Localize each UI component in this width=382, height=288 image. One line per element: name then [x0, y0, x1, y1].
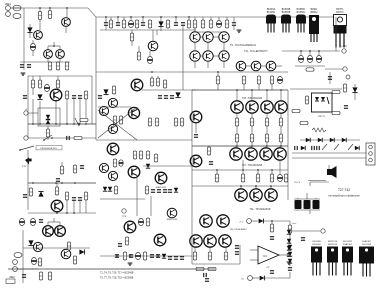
wire y158 row — [292, 157, 366, 159]
main top rail — [88, 8, 336, 17]
wire cross b — [98, 110, 137, 140]
capacitor C61 — [344, 105, 348, 109]
capacitor C51 — [156, 254, 160, 258]
wire y107 mid — [98, 106, 131, 108]
wire y153 row — [292, 152, 366, 154]
jack WE2 second — [9, 267, 17, 279]
input jack WE2 — [13, 253, 22, 265]
diode D8 — [38, 191, 43, 196]
resistor R76 — [114, 186, 117, 194]
wire spk — [310, 165, 329, 186]
resistor R33 — [148, 118, 151, 126]
svg-text:T27...T30-2SC5200: T27...T30-2SC5200 — [242, 165, 263, 167]
resistor R52 — [256, 170, 259, 182]
resistor R4 — [56, 62, 59, 70]
resistor R55 — [193, 247, 196, 260]
svg-text:+Vz: +Vz — [239, 222, 243, 224]
package BC546 TO-92 — [281, 9, 291, 33]
capacitor C50 — [150, 254, 154, 258]
resistor R7 — [122, 17, 125, 28]
wire y199 row — [100, 198, 145, 200]
capacitor C69 — [270, 270, 274, 274]
resistor R20 — [38, 76, 41, 88]
resistor R27 — [112, 86, 115, 94]
wire y90 mid — [142, 89, 196, 91]
resistor R70 — [48, 272, 51, 280]
transistor T7 — [203, 32, 213, 42]
svg-text:MJE15030: MJE15030 — [167, 219, 178, 221]
label MJE15031 — [156, 187, 167, 189]
resistor R21 — [56, 76, 59, 88]
optocoupler U1 — [312, 93, 333, 118]
label +85V — [292, 223, 298, 225]
resistor R38 — [242, 76, 245, 90]
resistor R74 — [143, 252, 146, 260]
diode D17 — [306, 138, 310, 142]
resistor R87 — [300, 121, 308, 124]
capacitor C6 — [104, 17, 108, 30]
wire R1 to T1 — [39, 20, 41, 30]
diode D27 — [288, 259, 292, 263]
transistor T21 — [190, 111, 202, 123]
svg-text:+75V: +75V — [341, 45, 347, 48]
transistor T33 — [265, 189, 277, 201]
resistor R58 — [196, 267, 204, 270]
wire y140 diodes — [300, 139, 360, 141]
electrolytic C65 — [295, 197, 302, 209]
wire gnd C14 — [237, 30, 242, 32]
capacitor C21 — [78, 95, 82, 99]
electrolytic C43 — [31, 257, 36, 264]
capacitor C53 — [174, 256, 178, 260]
resistor R60 — [60, 162, 63, 174]
wire row2 links — [195, 56, 224, 68]
resistor R28 — [113, 116, 116, 124]
wire y89 row — [290, 88, 342, 90]
resistor R53 — [270, 170, 273, 182]
wire x28 down — [27, 150, 29, 210]
svg-text:BDT71: BDT71 — [336, 9, 344, 11]
package BD249 — [311, 247, 322, 276]
diode D5 — [46, 120, 50, 124]
capacitor C68 — [270, 236, 274, 240]
resistor R57 — [224, 247, 227, 260]
input jack WE1 — [5, 2, 11, 16]
wire x183 down — [182, 26, 184, 60]
wire y181 seg — [308, 180, 326, 182]
transistor T43 — [61, 249, 71, 259]
electrolytic C67 — [313, 197, 320, 209]
label opamp — [266, 267, 270, 269]
capacitor C11 — [181, 22, 185, 26]
switch S1 — [43, 135, 53, 141]
diode D14 — [146, 164, 150, 168]
package BDT71 TO-220 — [334, 9, 347, 48]
resistor R42 — [250, 113, 253, 126]
electrolytic C66 — [304, 197, 311, 209]
capacitor C29 — [209, 161, 213, 165]
fuse F1 — [322, 144, 327, 150]
capacitor C54 — [180, 256, 184, 260]
resistor R56 — [208, 247, 211, 260]
terminal aux — [325, 67, 347, 71]
svg-text:2SA1302: 2SA1302 — [343, 243, 353, 246]
diode D12 — [103, 187, 107, 191]
wire col x24 — [23, 12, 25, 70]
resistor R90 — [288, 221, 291, 233]
diode D16 — [352, 87, 357, 92]
wire y270 row2 — [17, 268, 38, 270]
transistor T8 — [219, 32, 229, 42]
svg-text:IC1: IC1 — [263, 255, 267, 258]
wire row y62 — [20, 61, 70, 63]
wire rail y183 — [28, 182, 96, 184]
svg-text:BC560C: BC560C — [297, 12, 306, 14]
resistor R10 — [166, 20, 169, 28]
diode D23 — [259, 219, 264, 224]
label T34-T35 — [230, 229, 248, 231]
capacitor C71 — [301, 237, 305, 241]
electrolytic C12 — [147, 51, 152, 64]
diode D21 — [301, 146, 305, 150]
transistor T32 — [250, 189, 262, 201]
resistor R81 — [145, 186, 148, 194]
wire tp2 row — [28, 137, 96, 139]
wire y264 — [192, 245, 240, 264]
transistor T29 — [260, 148, 272, 160]
loop box — [38, 108, 60, 126]
package MJ21193 labels — [328, 241, 338, 246]
svg-text:T11...T14-LEKTRICITY: T11...T14-LEKTRICITY — [244, 51, 268, 53]
transistor T18 — [99, 106, 108, 115]
transistor T42 — [33, 242, 42, 251]
wire left col x28 upper — [27, 76, 29, 124]
diode D4 — [46, 115, 50, 119]
transistor T49 — [108, 171, 117, 180]
label footnote1 — [100, 272, 134, 275]
capacitor C4 — [20, 64, 24, 68]
capacitor C9 — [141, 17, 145, 26]
resistor R3 — [48, 62, 51, 70]
transistor T22 — [190, 155, 202, 167]
transistor T38 — [219, 235, 231, 247]
wire x23 col — [22, 230, 24, 283]
capacitor C57 — [157, 189, 161, 193]
svg-text:C5 LS: C5 LS — [294, 182, 301, 184]
resistor R50 — [215, 170, 218, 182]
svg-text:T6, T7, T8, T18, T19 = BC556B: T6, T7, T8, T18, T19 = BC556B — [100, 277, 134, 280]
wire caps top — [294, 193, 320, 199]
electrolytic C13 — [216, 17, 221, 28]
svg-text:2SA1987: 2SA1987 — [362, 240, 372, 243]
resistor R51 — [241, 160, 244, 182]
capacitor C22 — [66, 136, 70, 140]
wire y72 row — [96, 71, 288, 73]
electrolytic C41 — [30, 218, 35, 225]
resistor R32 — [163, 80, 166, 88]
wire T2 down — [65, 27, 67, 34]
diode D18 — [318, 138, 322, 142]
resistor R35 — [174, 118, 177, 126]
wire D1 — [29, 24, 31, 38]
svg-text:OP: OP — [266, 267, 270, 269]
diode D19 — [330, 138, 334, 142]
diode D11 — [162, 254, 166, 258]
diode D1 — [27, 27, 32, 32]
capacitor C39 — [78, 197, 82, 201]
terminal TP3 — [122, 209, 127, 218]
resistor R36 — [180, 118, 183, 126]
svg-text:MJ21194: MJ21194 — [328, 244, 338, 246]
svg-text:T27-T42: T27-T42 — [338, 188, 350, 192]
wire drops y200 — [67, 200, 86, 213]
switch S2 diagonal — [19, 146, 34, 151]
svg-text:REGULACJA WYJ.: REGULACJA WYJ. — [40, 147, 58, 150]
resistor R16 — [209, 17, 212, 28]
label footnote2 — [100, 277, 134, 280]
transistor T11 — [219, 42, 229, 61]
diode D26 — [288, 252, 292, 256]
diode D25 — [288, 245, 292, 249]
transistor T20 — [108, 124, 117, 133]
wire caps bottom — [294, 210, 320, 214]
svg-text:BDT72: BDT72 — [336, 12, 344, 14]
resistor R8 — [135, 20, 138, 28]
transistor T50 — [128, 166, 140, 178]
svg-text:BC546B: BC546B — [282, 9, 291, 11]
svg-text:2SC5359: 2SC5359 — [362, 244, 372, 246]
wire cross a — [98, 107, 137, 138]
package 2SA1987 — [359, 247, 374, 277]
capacitor C18 — [23, 95, 27, 99]
wire bus y124 — [28, 123, 96, 125]
transistor T28 — [245, 148, 257, 160]
wire drops to bus — [33, 99, 86, 124]
resistor R15 — [201, 17, 204, 28]
resistor R30 — [150, 76, 153, 86]
svg-text:CNY17: CNY17 — [318, 116, 326, 118]
capacitor C2 oval — [13, 14, 21, 19]
svg-text:T31...T33-MJE-BUR: T31...T33-MJE-BUR — [250, 209, 271, 211]
diode D29 — [287, 239, 291, 243]
wire row y30 — [100, 29, 196, 31]
wire row3 links — [246, 65, 282, 67]
ground G3 — [287, 262, 292, 264]
svg-text:MJ21193: MJ21193 — [328, 241, 338, 243]
capacitor C28 — [194, 123, 198, 138]
resistor R86 — [332, 111, 340, 114]
wire top x336 drop — [335, 17, 337, 51]
rail dots — [105, 16, 190, 18]
transistor T24 — [246, 101, 258, 113]
resistor R68 — [73, 256, 76, 264]
svg-text:BF245A: BF245A — [267, 8, 276, 11]
wire row1 links — [195, 32, 224, 37]
resistor R19 — [31, 76, 34, 95]
package MJ21193 — [327, 247, 338, 276]
label MJE15030 — [167, 219, 178, 221]
op-amp IC1 — [258, 246, 279, 264]
label P-W — [22, 166, 27, 168]
diode D20 — [342, 138, 346, 142]
resistor R47 — [265, 126, 268, 142]
transistor T16 — [131, 79, 143, 91]
label LS — [294, 182, 301, 184]
label T23-T26 — [242, 97, 263, 100]
capacitor C72 — [287, 253, 291, 257]
diode D3 — [37, 94, 42, 99]
resistor R59 — [208, 267, 216, 270]
resistor R62 — [29, 188, 32, 196]
wire drops t31 — [241, 186, 271, 189]
electrolytic C49 — [135, 252, 140, 259]
diode D24 — [260, 276, 265, 281]
wire x157 drop — [156, 30, 158, 35]
resistor R26 — [80, 118, 88, 121]
transistor T4 — [56, 50, 65, 59]
resistor R89 — [270, 221, 273, 232]
electrolytic C40 — [19, 218, 24, 225]
diode D10 — [79, 249, 84, 254]
svg-text:MJE15031: MJE15031 — [156, 187, 167, 189]
connector J1 — [366, 143, 375, 165]
transistor T15 — [50, 89, 62, 101]
wire y231 row — [292, 230, 320, 232]
resistor R12 — [130, 30, 133, 46]
resistor R13 — [137, 46, 140, 60]
op-amp inputs — [250, 250, 290, 260]
transistor T25 — [261, 101, 273, 113]
capacitor C32 — [235, 251, 239, 255]
capacitor C20 — [72, 95, 76, 99]
resistor R40 — [270, 76, 273, 90]
resistor R79 — [146, 151, 149, 159]
svg-text:2SC3281: 2SC3281 — [343, 241, 353, 243]
resistor R77 — [133, 151, 136, 159]
transistor T48 — [99, 163, 108, 172]
wire x330 top — [329, 72, 331, 84]
wire rail y213 — [28, 212, 96, 214]
wire drop R2 — [49, 8, 51, 10]
label title2 — [328, 194, 360, 198]
transistor T2 — [62, 18, 71, 27]
svg-text:WE2: WE2 — [9, 276, 15, 279]
speaker LS — [327, 166, 337, 178]
diode D7 — [175, 92, 180, 97]
resistor R72 — [146, 218, 149, 226]
capacitor C70 — [288, 264, 292, 278]
package 2SA1987 labels — [362, 240, 372, 246]
wire drops t27 — [236, 146, 280, 148]
long bottom rail — [8, 268, 215, 270]
transistor T31 — [235, 189, 247, 201]
resistor R82 — [343, 84, 346, 92]
wire left col x28 mid — [27, 124, 29, 138]
capacitor C7 — [116, 17, 120, 26]
wire drop T2 — [66, 8, 68, 17]
wire input to rail — [10, 8, 24, 12]
pot arrow — [75, 118, 81, 126]
capacitor C31 — [235, 245, 239, 249]
capacitor C26 — [170, 95, 174, 99]
svg-text:BD250B: BD250B — [312, 244, 321, 246]
wire x151 down — [150, 196, 152, 216]
transistor T26 — [275, 101, 287, 113]
ground G2 — [128, 263, 133, 265]
top-left rail — [24, 7, 88, 9]
label T27-T30 — [242, 165, 263, 167]
transistor T44 — [124, 221, 136, 233]
transistor T39 — [51, 200, 63, 212]
resistor R84 — [305, 96, 308, 104]
svg-text:BC550C: BC550C — [297, 9, 306, 11]
zener D2 — [158, 17, 163, 31]
wire x288 long — [287, 90, 289, 200]
wire rail y76 — [28, 75, 92, 77]
transistor T41 — [55, 226, 66, 237]
connector block — [6, 279, 15, 284]
resistor R63 — [55, 183, 58, 195]
resistor R43 — [265, 113, 268, 126]
resistor R24 — [46, 126, 49, 140]
resistor R66 — [38, 258, 41, 266]
package 2SC3281 labels — [343, 241, 353, 246]
svg-text:BD249B: BD249B — [312, 241, 321, 243]
capacitor C37 — [23, 194, 27, 198]
package BF245 TO-92 — [266, 8, 276, 33]
resistor R61 — [73, 165, 76, 173]
svg-text:T23...T26-2SA1943: T23...T26-2SA1943 — [242, 97, 263, 100]
transistor T30 — [274, 148, 286, 160]
wire drops y142-146 — [237, 142, 281, 146]
ground sym top — [21, 73, 26, 75]
resistor R29 — [119, 116, 122, 124]
label Tda polarizacje — [230, 44, 256, 47]
svg-text:-Vz: -Vz — [241, 279, 244, 281]
electrolytic C46 — [138, 218, 143, 225]
wire +rail — [251, 220, 290, 222]
svg-text:T9...T10 POLARIZACJA: T9...T10 POLARIZACJA — [230, 44, 256, 47]
capacitor C64 — [316, 146, 320, 150]
wire bus y170 — [192, 169, 288, 171]
transistor T27 — [230, 148, 242, 160]
resistor R75 — [113, 159, 116, 167]
transistor T9 — [190, 42, 200, 61]
electrolytic C55 — [119, 160, 123, 166]
diode D13 — [108, 187, 112, 191]
capacitor C5 — [27, 64, 31, 68]
terminal Tz — [321, 229, 325, 233]
wire drop R1 — [39, 8, 41, 11]
wire y166 — [143, 165, 192, 167]
wire x355 — [354, 84, 356, 100]
svg-text:BD912: BD912 — [310, 12, 318, 14]
transistor T36 — [190, 235, 202, 247]
wire bus y256 — [100, 255, 192, 257]
wire x96 long — [95, 17, 97, 140]
diode D6 — [103, 89, 108, 94]
resistor R65 — [84, 192, 87, 200]
terminal +aux — [346, 75, 350, 79]
resistor R1 — [38, 12, 41, 20]
resistor R45 — [235, 126, 238, 142]
resistor R71 — [125, 237, 128, 245]
resistor R73 — [123, 252, 126, 260]
wire y140 mid — [96, 139, 192, 141]
transistor T23 — [231, 101, 243, 113]
wire x290 col — [289, 233, 291, 244]
resistor R17 — [225, 17, 228, 28]
